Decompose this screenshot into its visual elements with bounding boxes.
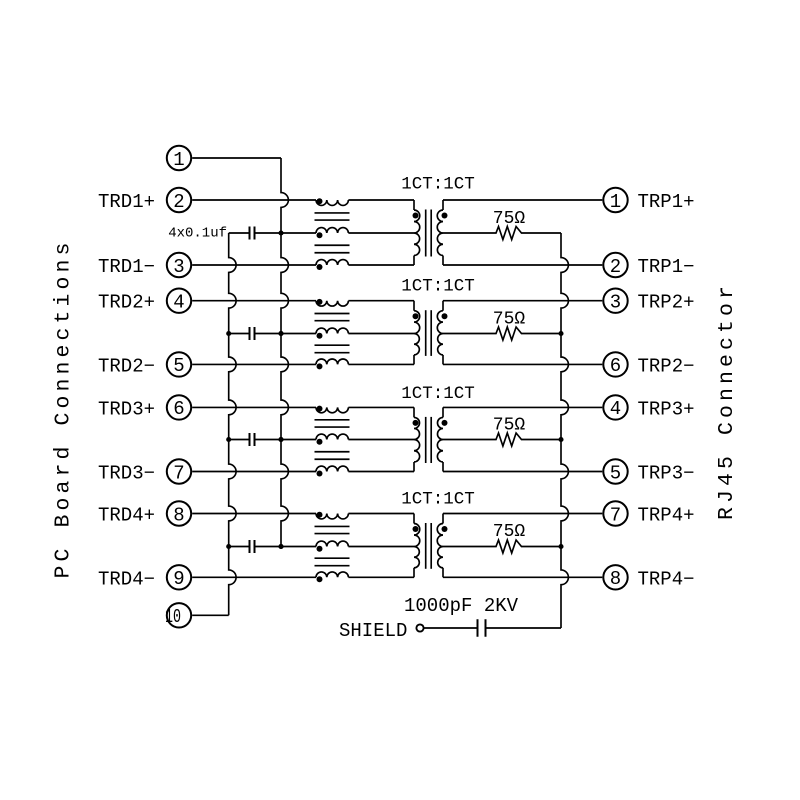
svg-text:TRD3−: TRD3− — [98, 463, 155, 485]
svg-text:1CT:1CT: 1CT:1CT — [401, 384, 475, 404]
svg-text:75Ω: 75Ω — [493, 416, 526, 436]
svg-text:6: 6 — [173, 398, 184, 420]
svg-text:2: 2 — [173, 191, 184, 213]
svg-text:4x0.1uf: 4x0.1uf — [168, 226, 227, 242]
svg-text:TRD3+: TRD3+ — [98, 398, 155, 420]
svg-text:5: 5 — [610, 462, 621, 484]
svg-text:1CT:1CT: 1CT:1CT — [401, 489, 475, 509]
svg-text:8: 8 — [173, 504, 184, 526]
svg-text:TRD4−: TRD4− — [98, 568, 155, 590]
svg-text:TRD1−: TRD1− — [98, 256, 155, 278]
svg-text:3: 3 — [610, 292, 621, 314]
svg-text:1000pF 2KV: 1000pF 2KV — [404, 595, 519, 617]
svg-text:1: 1 — [610, 191, 621, 213]
svg-text:SHIELD: SHIELD — [339, 620, 407, 642]
svg-text:10: 10 — [165, 606, 181, 628]
svg-text:TRD2−: TRD2− — [98, 355, 155, 377]
svg-text:1: 1 — [173, 149, 184, 171]
svg-text:2: 2 — [610, 256, 621, 278]
svg-text:TRP1−: TRP1− — [638, 256, 695, 278]
svg-text:TRP3−: TRP3− — [638, 463, 695, 485]
svg-text:TRP2+: TRP2+ — [638, 292, 695, 314]
svg-text:7: 7 — [610, 504, 621, 526]
svg-text:75Ω: 75Ω — [493, 309, 526, 329]
svg-text:RJ45 Connector: RJ45 Connector — [715, 282, 739, 520]
svg-text:TRP4+: TRP4+ — [638, 505, 695, 527]
svg-text:4: 4 — [173, 292, 184, 314]
svg-text:75Ω: 75Ω — [493, 209, 526, 229]
svg-text:7: 7 — [173, 462, 184, 484]
svg-text:TRD2+: TRD2+ — [98, 292, 155, 314]
svg-text:3: 3 — [173, 256, 184, 278]
svg-text:TRP3+: TRP3+ — [638, 398, 695, 420]
svg-text:TRP1+: TRP1+ — [638, 191, 695, 213]
svg-text:5: 5 — [173, 355, 184, 377]
svg-text:1CT:1CT: 1CT:1CT — [401, 175, 475, 195]
svg-text:1CT:1CT: 1CT:1CT — [401, 276, 475, 296]
svg-text:9: 9 — [173, 568, 184, 590]
svg-text:PC Board Connections: PC Board Connections — [51, 238, 75, 578]
svg-text:75Ω: 75Ω — [493, 522, 526, 542]
svg-text:TRP2−: TRP2− — [638, 355, 695, 377]
svg-text:TRD4+: TRD4+ — [98, 505, 155, 527]
svg-text:TRP4−: TRP4− — [638, 568, 695, 590]
svg-text:4: 4 — [610, 398, 621, 420]
svg-text:TRD1+: TRD1+ — [98, 191, 155, 213]
svg-text:6: 6 — [610, 355, 621, 377]
svg-text:8: 8 — [610, 568, 621, 590]
